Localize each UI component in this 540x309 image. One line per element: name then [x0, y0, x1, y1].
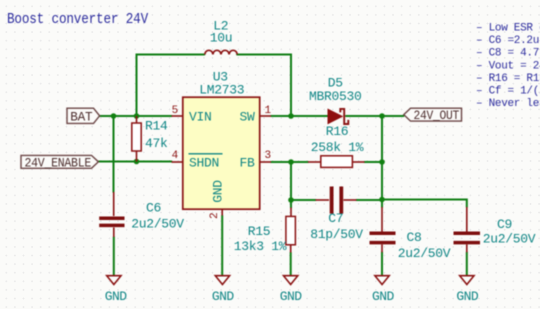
svg-text:10u: 10u	[210, 31, 233, 46]
svg-text:C9: C9	[497, 217, 512, 232]
svg-text:GND: GND	[211, 180, 226, 203]
svg-text:Boost converter 24V: Boost converter 24V	[7, 12, 148, 28]
svg-text:2: 2	[209, 213, 221, 219]
svg-text:5: 5	[172, 105, 178, 117]
svg-text:13k3 1%: 13k3 1%	[234, 239, 287, 254]
svg-text:– Never leave FB open: – Never leave FB open	[476, 98, 540, 110]
svg-text:BAT: BAT	[70, 109, 92, 124]
svg-text:2u2/50V: 2u2/50V	[398, 246, 451, 261]
svg-text:2u2/50V: 2u2/50V	[131, 217, 184, 232]
svg-text:R14: R14	[145, 119, 168, 134]
svg-text:81p/50V: 81p/50V	[310, 227, 363, 242]
svg-text:– C8 = 4.7uF: – C8 = 4.7uF	[476, 48, 540, 60]
svg-text:24V_ENABLE: 24V_ENABLE	[25, 156, 92, 170]
svg-text:R15: R15	[248, 224, 271, 239]
svg-text:GND: GND	[105, 289, 127, 304]
svg-text:FB: FB	[239, 156, 255, 171]
svg-text:2u2/50V: 2u2/50V	[483, 232, 536, 247]
svg-text:C6: C6	[146, 201, 161, 216]
svg-text:4: 4	[172, 150, 179, 162]
svg-text:24V_OUT: 24V_OUT	[414, 109, 460, 123]
svg-text:– Low ESR caps: – Low ESR caps	[476, 23, 540, 35]
svg-text:3: 3	[265, 150, 271, 162]
svg-text:SW: SW	[239, 110, 255, 125]
svg-text:– Vout = 24V: – Vout = 24V	[476, 60, 540, 72]
svg-text:GND: GND	[280, 289, 302, 304]
svg-text:47k: 47k	[145, 136, 168, 151]
svg-text:GND: GND	[372, 289, 394, 304]
svg-text:– R16 = R15(Vo/1.23-1): – R16 = R15(Vo/1.23-1)	[476, 73, 540, 85]
svg-text:R16: R16	[326, 124, 349, 139]
svg-text:GND: GND	[456, 289, 478, 304]
svg-text:MBR0530: MBR0530	[309, 89, 362, 104]
svg-text:C7: C7	[328, 211, 343, 226]
svg-text:LM2733: LM2733	[199, 83, 244, 98]
svg-text:1: 1	[265, 105, 272, 117]
svg-text:VIN: VIN	[189, 110, 212, 125]
svg-text:– Cf = 1/(2pi*R16*fz): – Cf = 1/(2pi*R16*fz)	[476, 86, 540, 98]
svg-text:C8: C8	[407, 230, 422, 245]
svg-text:GND: GND	[212, 289, 234, 304]
svg-text:SHDN: SHDN	[189, 156, 219, 171]
svg-text:258k 1%: 258k 1%	[311, 140, 364, 155]
svg-text:– C6 =2.2uF: – C6 =2.2uF	[476, 35, 540, 47]
